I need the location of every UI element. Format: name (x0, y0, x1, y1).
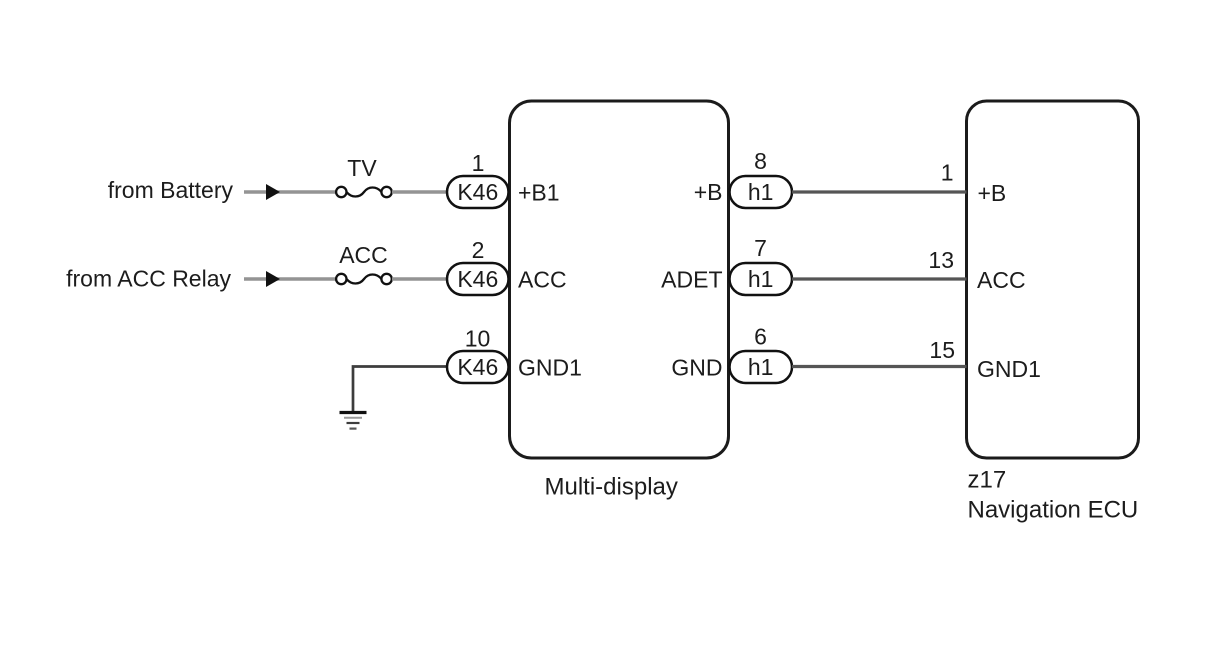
wire h1 pin 8 to Navigation ECU (792, 190, 967, 193)
wire h1 pin 6 to Navigation ECU (792, 365, 967, 368)
wire ground to K46 (353, 367, 447, 412)
svg-text:from ACC Relay: from ACC Relay (66, 266, 231, 292)
svg-text:K46: K46 (457, 179, 498, 205)
svg-text:6: 6 (754, 324, 767, 350)
wire fuse TV to K46 (392, 190, 447, 193)
ground (340, 413, 367, 429)
svg-text:K46: K46 (457, 354, 498, 380)
arrowhead from Battery (266, 184, 280, 200)
svg-text:K46: K46 (457, 266, 498, 292)
svg-text:13: 13 (928, 247, 954, 273)
svg-text:ACC: ACC (518, 267, 567, 293)
connector h1 pin 8 (730, 176, 793, 208)
svg-text:h1: h1 (748, 354, 774, 380)
svg-text:GND1: GND1 (977, 356, 1041, 382)
connector K46 pin 10 (447, 351, 509, 383)
svg-text:+B: +B (694, 179, 723, 205)
svg-text:TV: TV (347, 155, 377, 181)
svg-text:7: 7 (754, 235, 767, 261)
wire from ACC Relay to fuse ACC (244, 277, 337, 280)
svg-text:h1: h1 (748, 179, 774, 205)
svg-text:GND1: GND1 (518, 355, 582, 381)
svg-text:1: 1 (472, 150, 485, 176)
svg-text:+B: +B (978, 180, 1007, 206)
wire fuse ACC to K46 (392, 277, 447, 280)
svg-text:ACC: ACC (977, 267, 1026, 293)
fuse ACC (336, 274, 392, 284)
svg-text:Multi-display: Multi-display (545, 474, 678, 501)
svg-text:GND: GND (671, 355, 722, 381)
svg-text:h1: h1 (748, 266, 774, 292)
svg-text:ACC: ACC (339, 242, 388, 268)
connector h1 pin 7 (730, 263, 793, 295)
fuse TV (336, 187, 392, 197)
box U1 Multi-display (510, 101, 729, 458)
wire h1 pin 7 to Navigation ECU (792, 277, 967, 280)
svg-text:2: 2 (472, 237, 485, 263)
svg-text:15: 15 (929, 337, 955, 363)
svg-text:1: 1 (941, 160, 954, 186)
arrowhead from ACC Relay (266, 271, 280, 287)
connector K46 pin 2 (447, 263, 509, 295)
connector K46 pin 1 (447, 176, 509, 208)
svg-text:z17: z17 (968, 467, 1007, 494)
wire from Battery to fuse TV (244, 190, 337, 193)
box U2 Navigation ECU (967, 101, 1139, 458)
svg-text:Navigation ECU: Navigation ECU (968, 497, 1139, 524)
svg-text:8: 8 (754, 148, 767, 174)
svg-text:ADET: ADET (661, 267, 722, 293)
svg-text:+B1: +B1 (518, 180, 560, 206)
connector h1 pin 6 (730, 351, 793, 383)
svg-text:from Battery: from Battery (108, 177, 234, 203)
svg-text:10: 10 (465, 326, 491, 352)
